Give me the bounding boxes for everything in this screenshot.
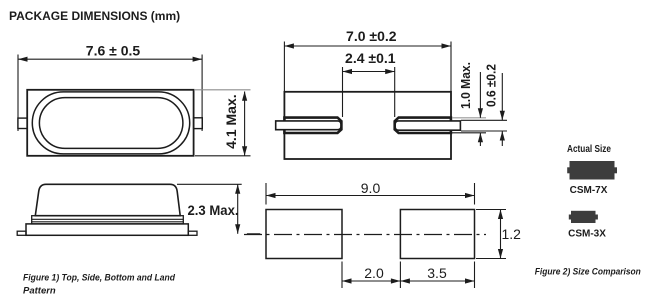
svg-text:7.6 ± 0.5: 7.6 ± 0.5	[86, 42, 141, 58]
bottom view right lead	[395, 121, 460, 130]
svg-text:Actual Size: Actual Size	[567, 144, 611, 155]
side view dome body	[35, 184, 180, 215]
svg-text:2.0: 2.0	[364, 265, 384, 281]
CSM-7X actual size shape	[567, 161, 617, 180]
dimension 9.0	[266, 183, 475, 205]
dimension 7.0 ±0.2	[284, 42, 451, 92]
svg-text:9.0: 9.0	[361, 180, 381, 196]
side view right foot	[188, 231, 197, 235]
land pattern right pad	[400, 210, 474, 259]
svg-text:CSM-7X: CSM-7X	[570, 185, 608, 196]
svg-text:1.0 Max.: 1.0 Max.	[458, 62, 473, 109]
dimension 2.4 ±0.1	[343, 67, 395, 117]
dimension 0.6 ±0.2	[461, 73, 507, 146]
dimension 4.1 Max.	[195, 90, 251, 156]
top view body outline	[27, 90, 193, 156]
svg-text:7.0 ±0.2: 7.0 ±0.2	[346, 28, 397, 44]
svg-text:Figure 1) Top, Side, Bottom an: Figure 1) Top, Side, Bottom and Land	[23, 272, 175, 283]
bottom view right terminal pad	[395, 118, 451, 133]
dimensions 2.0 and 3.5	[342, 262, 475, 289]
svg-text:2.4 ±0.1: 2.4 ±0.1	[345, 50, 396, 66]
bottom view left lead	[276, 121, 341, 130]
svg-text:1.2: 1.2	[502, 226, 522, 242]
svg-text:Figure 2) Size Comparison: Figure 2) Size Comparison	[535, 267, 641, 278]
top view outer stadium	[32, 92, 189, 154]
svg-text:Pattern: Pattern	[23, 286, 56, 297]
svg-text:2.3 Max.: 2.3 Max.	[188, 202, 239, 218]
CSM-3X actual size shape	[569, 211, 598, 223]
svg-text:PACKAGE DIMENSIONS (mm): PACKAGE DIMENSIONS (mm)	[9, 9, 180, 23]
bottom view left terminal pad	[284, 118, 341, 133]
bottom view body outline	[284, 92, 451, 159]
svg-text:0.6 ±0.2: 0.6 ±0.2	[483, 64, 498, 107]
svg-text:3.5: 3.5	[427, 265, 447, 281]
top view right tab	[194, 118, 203, 129]
dimension 2.3 Max.	[177, 184, 260, 234]
svg-text:CSM-3X: CSM-3X	[568, 228, 606, 239]
top view inner stadium	[39, 98, 183, 149]
dimension 1.2	[476, 210, 506, 259]
top view left tab	[18, 118, 27, 128]
land pattern centerline	[244, 234, 486, 236]
dimension 1.0 Max.	[452, 72, 486, 146]
land pattern left pad	[266, 210, 342, 259]
side view base	[26, 224, 188, 235]
svg-text:4.1 Max.: 4.1 Max.	[223, 94, 239, 148]
side view flange band	[32, 216, 184, 224]
side view left foot	[17, 231, 26, 235]
dimension 7.6 ± 0.5	[18, 55, 202, 132]
